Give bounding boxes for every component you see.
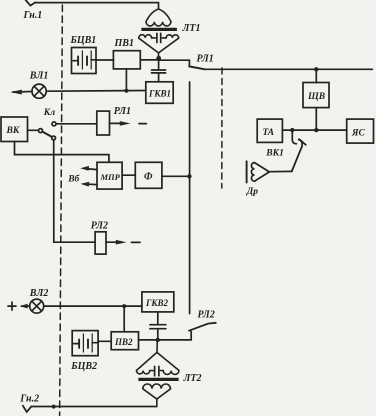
svg-text:ПВ1: ПВ1	[114, 38, 134, 49]
dash after РЛ1 arrow	[139, 123, 146, 125]
capacitor C1	[152, 59, 166, 82]
svg-text:БЦВ2: БЦВ2	[70, 361, 97, 372]
wire bottom Гн.2	[31, 406, 157, 408]
arrow ВЛ1 out	[10, 90, 32, 95]
wire ВК to Кл	[28, 129, 39, 131]
svg-text:ВЛ2: ВЛ2	[29, 288, 49, 299]
wire ВК down to МПР	[15, 142, 109, 163]
dash after РЛ2 arrow	[132, 241, 141, 243]
lamp ВЛ2	[30, 299, 44, 313]
wire bottom horizontal ПВ2 to РЛ2	[139, 339, 192, 341]
switch ВК1	[292, 132, 306, 171]
jack Gn.1	[26, 0, 36, 6]
wire Кл down to РЛ2 coil	[54, 140, 95, 242]
wire БЦВ2 to ПВ2	[98, 340, 111, 342]
box БЦВ1	[72, 48, 97, 74]
wire junction to ПВ1	[140, 59, 158, 61]
switch РЛ1 (line side)	[159, 60, 205, 69]
svg-text:Др: Др	[246, 187, 258, 197]
box БЦВ2	[72, 331, 98, 356]
switch РЛ2 (line side)	[189, 323, 216, 340]
svg-text:ЛТ2: ЛТ2	[183, 373, 202, 384]
transformer ЛТ1	[139, 9, 179, 57]
wire Др to ВК1	[269, 170, 292, 172]
svg-text:ПВ2: ПВ2	[114, 337, 133, 347]
box ГКВ1	[146, 82, 173, 104]
svg-text:Гн.1: Гн.1	[23, 10, 43, 21]
wire drop to ЩВ	[315, 69, 317, 82]
dashed boundary line right	[221, 68, 223, 188]
box ВК	[1, 117, 28, 142]
svg-text:РЛ1: РЛ1	[197, 54, 214, 65]
box Ф	[135, 162, 162, 188]
junction dot C2	[156, 338, 160, 342]
box ГКВ2	[142, 292, 174, 312]
svg-text:ЛТ1: ЛТ1	[182, 23, 201, 34]
svg-text:БЦВ1: БЦВ1	[70, 35, 97, 46]
svg-text:РЛ2: РЛ2	[198, 310, 215, 321]
wire down to ПВ2	[123, 306, 125, 332]
wire ТА to ЯС	[282, 129, 346, 131]
junction dot ПВ2 drop	[122, 304, 126, 308]
svg-text:ГКВ1: ГКВ1	[148, 88, 171, 98]
svg-text:ГКВ2: ГКВ2	[145, 298, 169, 308]
wire ВЛ2 to ГКВ2	[44, 305, 142, 307]
svg-text:Ф: Ф	[144, 172, 153, 183]
arrow РЛ1	[110, 121, 131, 126]
transformer ЛТ2	[137, 340, 179, 407]
svg-text:ЯС: ЯС	[351, 129, 366, 139]
dashed boundary line left	[60, 5, 63, 416]
wire Ф to bus	[162, 175, 190, 177]
inductor Др	[247, 161, 270, 182]
svg-text:Вб: Вб	[67, 173, 80, 184]
box ЯС	[347, 119, 374, 143]
battery GB1	[73, 51, 96, 69]
wire ВЛ1 to ГКВ1	[46, 90, 146, 93]
arrow ВЛ2 out	[20, 304, 30, 309]
arrow РЛ2	[106, 240, 127, 245]
wire БЦВ1 to ПВ1	[96, 59, 113, 61]
capacitor C2	[150, 312, 166, 340]
switch Кл	[39, 122, 57, 140]
junction dot ПВ1/ВЛ1	[124, 89, 128, 93]
relay coil РЛ1	[97, 111, 110, 135]
jack Гн.2	[23, 406, 32, 412]
box ЩВ	[303, 83, 329, 108]
plus terminal	[8, 302, 16, 310]
junction dot ВК1	[290, 128, 294, 132]
box ПВ2	[111, 332, 138, 350]
wire Кл to РЛ1 coil	[56, 123, 97, 125]
wire line bus to right	[205, 68, 373, 70]
svg-text:Кл: Кл	[43, 108, 55, 118]
svg-text:ВК1: ВК1	[265, 149, 284, 159]
svg-text:ВК: ВК	[6, 126, 20, 136]
svg-text:МПР: МПР	[100, 172, 121, 182]
junction node under ЛТ1	[156, 56, 161, 61]
svg-text:РЛ1: РЛ1	[114, 106, 131, 117]
svg-text:Гн.2: Гн.2	[19, 393, 39, 404]
arrow Вб upper	[80, 166, 97, 171]
wire ЩВ to ТА-ЯС line	[315, 108, 317, 131]
wire МПР to Ф	[122, 174, 135, 176]
box ТА	[257, 119, 282, 142]
wire top from Гн.1 to ЛТ1	[35, 3, 159, 9]
relay coil РЛ2	[95, 232, 106, 254]
svg-text:ВЛ1: ВЛ1	[29, 70, 49, 81]
svg-text:ЩВ: ЩВ	[307, 92, 325, 102]
lamp ВЛ1	[32, 84, 46, 98]
junction dot Ф bus	[187, 174, 191, 178]
wire ПВ1 down to ВЛ1 line	[125, 69, 127, 91]
box МПР	[97, 162, 122, 189]
vertical bus wire	[189, 82, 191, 314]
junction dot bottom	[52, 405, 56, 409]
junction dot ЩВ top	[314, 67, 318, 71]
box ПВ1	[113, 51, 140, 69]
arrow Вб lower	[81, 182, 98, 187]
junction dot ЩВ bottom	[314, 128, 318, 132]
svg-text:РЛ2: РЛ2	[91, 220, 108, 231]
battery GB2	[74, 334, 98, 352]
svg-text:ТА: ТА	[263, 128, 275, 138]
